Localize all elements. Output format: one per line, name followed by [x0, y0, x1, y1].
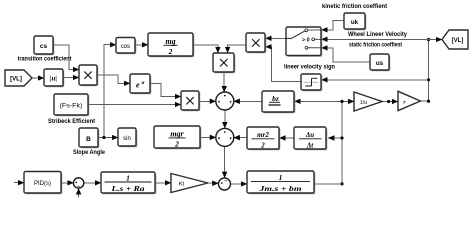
wire uk to switch — [321, 21, 344, 30]
wire product3 to sum1 — [223, 72, 225, 92]
wire mg/2 to product3 — [193, 45, 218, 53]
wire exp to product2 — [150, 84, 181, 97]
svg-text:Δt: Δt — [306, 141, 314, 149]
wire us to switch — [321, 48, 370, 62]
wire mr2/2 to sum2 — [234, 137, 247, 139]
svg-text:lineer velocity sign: lineer velocity sign — [284, 65, 335, 71]
wire branch to du/dt — [328, 137, 342, 139]
sum1 — [216, 92, 234, 110]
wire PID to sum4 — [61, 182, 74, 184]
wire sum3 to Jm — [231, 183, 247, 185]
sin block — [118, 128, 137, 147]
wire sum2 to sum3 — [224, 147, 226, 178]
wire B to sin — [98, 137, 118, 139]
svg-text:2: 2 — [260, 141, 265, 149]
sum2 — [216, 128, 234, 146]
svg-text:PID(s): PID(s) — [34, 181, 51, 187]
exp block — [130, 74, 151, 94]
switch block — [286, 27, 322, 57]
transfer bz — [262, 91, 295, 113]
wire to Goto VL — [429, 39, 443, 41]
gain r triangle — [398, 91, 420, 110]
svg-text:2: 2 — [174, 140, 179, 149]
wire feedback stub to sum4 — [78, 188, 80, 197]
transfer 1/(L.s+Ra) — [101, 172, 156, 194]
Goto tag VL — [442, 30, 468, 49]
wire du/dt to mr2/2 — [279, 137, 294, 139]
svg-text:uk: uk — [351, 19, 359, 26]
svg-text:Slope Angle: Slope Angle — [73, 150, 106, 156]
wire sum1 to sum2 — [224, 110, 226, 128]
constant cs — [34, 36, 54, 55]
gain 1/u triangle — [354, 92, 382, 111]
wire cs to product1 — [53, 45, 79, 70]
svg-text:Kt: Kt — [179, 182, 185, 188]
svg-text:Jm.s + bm: Jm.s + bm — [258, 184, 302, 193]
cos block — [116, 38, 136, 55]
wire branch to gain 1/u — [342, 100, 354, 102]
svg-text:mg: mg — [165, 37, 175, 46]
svg-text:us: us — [376, 60, 384, 67]
svg-text:1: 1 — [279, 173, 283, 182]
wire mgr/2 to sum2 — [200, 136, 216, 138]
gain mgr/2 — [154, 126, 201, 149]
junction dot between gains — [387, 100, 390, 103]
junction at B output — [102, 136, 105, 139]
constant us — [370, 54, 390, 71]
PID controller — [24, 172, 62, 195]
svg-text:(Fs-Fk): (Fs-Fk) — [60, 103, 83, 110]
svg-text:u: u — [142, 80, 145, 86]
sign block — [301, 74, 322, 91]
wire switch to product4 — [265, 37, 286, 39]
svg-text:mr2: mr2 — [257, 131, 269, 139]
svg-text:Wheel Lineer Velocity: Wheel Lineer Velocity — [348, 32, 408, 38]
svg-text:mgr: mgr — [170, 129, 184, 138]
wire Kt to sum3 — [208, 182, 218, 184]
svg-text:transition coefficient: transition coefficient — [18, 57, 72, 63]
svg-text:1/u: 1/u — [360, 100, 367, 106]
junction dots x428 — [427, 100, 430, 103]
product2 — [181, 91, 200, 111]
svg-text:B: B — [86, 136, 91, 143]
gain mg/2 — [148, 33, 194, 57]
gain mr2/2 — [247, 127, 280, 150]
derivative du/dt — [294, 127, 327, 150]
svg-text:cs: cs — [40, 43, 48, 50]
svg-text:[VL]: [VL] — [452, 38, 464, 44]
svg-text:2: 2 — [168, 47, 173, 56]
wire product2 to sum1 — [199, 100, 216, 102]
svg-text:L.s + Ra: L.s + Ra — [110, 184, 145, 193]
product3 — [213, 53, 235, 73]
wire bz to sum1 — [234, 100, 262, 102]
abs block — [44, 69, 64, 87]
svg-text:1: 1 — [126, 174, 130, 183]
wire abs to product1 — [63, 77, 79, 79]
wire B up to cos — [104, 45, 116, 138]
wire branch to bz — [294, 100, 342, 102]
wire cos to mg/2 — [135, 44, 148, 46]
svg-text:kinetic friction coeffient: kinetic friction coeffient — [322, 4, 387, 10]
product4 — [246, 33, 266, 53]
product1 — [79, 65, 98, 86]
wire gain r up to top — [420, 40, 428, 102]
constant Fs-Fk — [54, 94, 89, 116]
wire sum4 to Ls+Ra — [84, 182, 101, 184]
wire input to PID — [14, 182, 24, 184]
wire From VL to abs — [32, 77, 44, 79]
svg-text:sin: sin — [123, 136, 131, 142]
wire feedback vertical x342 — [341, 101, 343, 183]
wire product1 to exp — [97, 75, 130, 83]
From tag VL — [5, 70, 32, 86]
wire Jm to x342 — [314, 183, 342, 185]
svg-text:e: e — [136, 81, 140, 90]
svg-text:Stribeck Efficient: Stribeck Efficient — [48, 119, 95, 125]
wire Ls+Ra to Kt — [155, 182, 171, 184]
constant B — [79, 128, 99, 148]
junction dots x342 — [340, 100, 343, 103]
sum3 — [219, 178, 231, 190]
gain Kt triangle — [171, 174, 208, 193]
sum4 pid loop — [73, 178, 83, 188]
svg-text:bz: bz — [272, 94, 279, 103]
wire product4 to product3 — [228, 45, 246, 53]
svg-text:static friction coeffient: static friction coeffient — [349, 43, 402, 49]
svg-text:> 0: > 0 — [302, 38, 310, 44]
wire velocity to sign — [321, 79, 428, 81]
wire gain 1/u to gain r — [382, 101, 398, 103]
constant uk — [344, 13, 366, 30]
svg-text:cos: cos — [121, 44, 130, 50]
svg-text:Δu: Δu — [305, 131, 314, 139]
transfer 1/(Jm.s+bm) — [247, 171, 315, 194]
svg-text:|u|: |u| — [50, 75, 57, 83]
svg-text:[VL]: [VL] — [10, 77, 22, 83]
wire sign to product4 — [265, 47, 301, 82]
wire wheel velocity to switch — [321, 38, 428, 40]
wire Fs-Fk to product2 — [88, 104, 181, 106]
